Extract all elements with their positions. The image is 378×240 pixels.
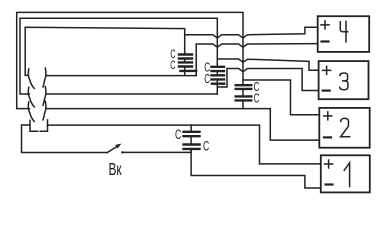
- svg-text:Вк: Вк: [109, 160, 122, 180]
- wire H1 to box4 plus: [185, 27, 318, 38]
- spark gap G1: [28, 68, 46, 88]
- svg-text:C: C: [204, 72, 210, 86]
- box3 minus terminal: [323, 89, 330, 91]
- box3 plus terminal: [323, 66, 331, 74]
- digit 3 label: [340, 73, 348, 90]
- wire row4 rail (gap4 to C4 top, to box1 plus): [48, 125, 321, 164]
- wire C4 bottom to box1 minus: [191, 149, 321, 188]
- capacitor C3 (pair, stage 2): [236, 85, 252, 100]
- wire middle charging rail (top rectangle 2): [20, 18, 217, 94]
- wire gap4 left to switch: [22, 125, 108, 153]
- source box 1: [321, 155, 370, 192]
- box1 minus terminal: [326, 183, 333, 185]
- source box 3: [319, 61, 369, 99]
- svg-text:C: C: [175, 127, 181, 143]
- source box 4: [318, 16, 370, 52]
- box2 plus terminal: [324, 112, 332, 120]
- wire inner charging rail (top rectangle 3): [25, 27, 185, 75]
- box4 plus terminal: [321, 21, 329, 29]
- switch Bk blade and contact: [107, 144, 123, 153]
- spark gap G4 output electrodes: [30, 120, 48, 131]
- svg-text:C: C: [203, 139, 209, 155]
- box2 minus terminal: [324, 136, 331, 138]
- wire row3 rail (gap3 to C3 bottom, to box2 minus): [46, 109, 320, 141]
- capacitor C4 (pair, stage 1): [184, 132, 200, 149]
- wire H4 from C2 bottom to box3 minus: [217, 69, 318, 91]
- source box 2: [319, 108, 369, 148]
- digit 2 label: [341, 118, 350, 136]
- wire H5 to box2 plus: [243, 80, 319, 115]
- wire row1 rail (gap1 to C1 bottom): [46, 71, 196, 76]
- box1 plus terminal: [325, 160, 333, 168]
- svg-text:C: C: [254, 91, 260, 105]
- capacitor C1 (pair, stage 4): [179, 55, 196, 71]
- wire row2 rail (gap2 to C2 bottom): [46, 93, 218, 95]
- wire H2 from C1 bottom to box4 minus: [196, 44, 318, 76]
- capacitor C2 (pair, stage 3): [212, 67, 225, 84]
- wire H3 to box3 plus: [217, 59, 318, 70]
- wire outer charging rail (top rectangle 1): [17, 12, 243, 108]
- digit 4 label: [340, 21, 347, 42]
- digit 1 label: [344, 163, 349, 187]
- wire switch to C4 bottom: [124, 151, 192, 153]
- box4 minus terminal: [322, 40, 329, 42]
- spark gap G3: [28, 101, 46, 121]
- svg-text:C: C: [170, 59, 175, 72]
- spark gap G2: [28, 87, 46, 107]
